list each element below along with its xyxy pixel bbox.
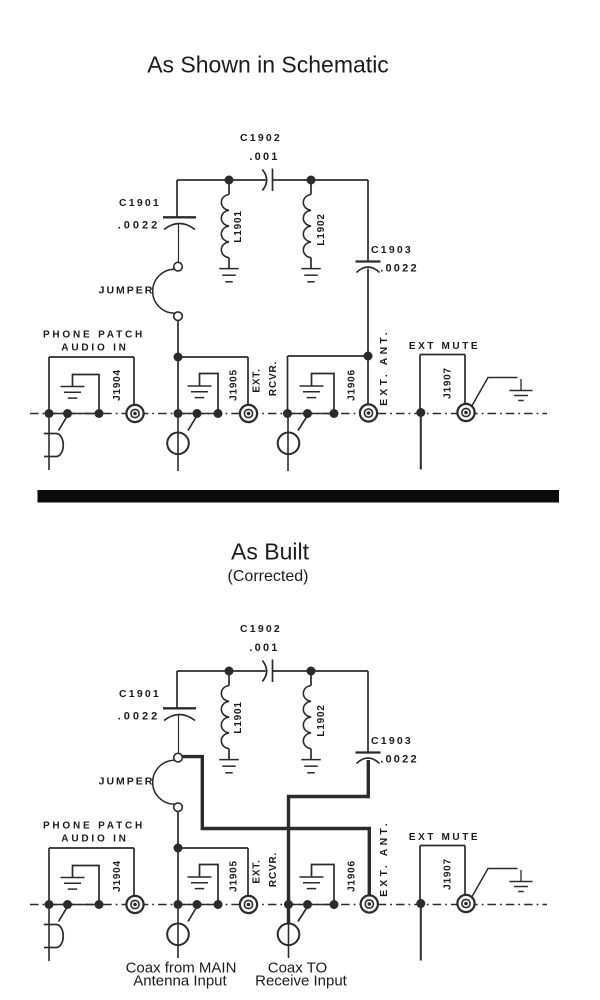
coax connector circle below J1906 (278, 924, 300, 946)
wire C1901 to jumper (178, 716, 180, 754)
wire top rail right segment (273, 670, 369, 672)
label J1904 (112, 860, 123, 892)
jumper terminal lower (174, 803, 183, 812)
label EXT. ANT. (378, 820, 390, 897)
jumper terminal lower (174, 312, 183, 321)
svg-text:EXT MUTE: EXT MUTE (409, 341, 480, 352)
svg-text:EXT.: EXT. (252, 368, 263, 392)
node dot J1906 block ground (330, 409, 339, 418)
dashed signal path line (30, 413, 547, 415)
node dot J1904 block switch (63, 900, 72, 909)
connector J1907 (457, 404, 474, 421)
svg-text:J1906: J1906 (347, 369, 358, 401)
node dot J1905 block switch (193, 409, 202, 418)
bold corrected wire C1903 to receive coax (289, 760, 369, 923)
wire stub below J1904 block (48, 909, 50, 961)
node dot J1906 block ground (330, 900, 339, 909)
wire J1904 box right to jack (133, 848, 135, 896)
inductor L1902 (303, 671, 311, 749)
coax connector circle below J1905 (167, 433, 189, 455)
ground under L1902 (301, 749, 321, 773)
ground under L1902 (301, 258, 321, 282)
label PHONE PATCH (43, 821, 145, 832)
svg-text:L1901: L1901 (233, 701, 244, 733)
value label .001 for C1902 (249, 151, 279, 163)
svg-text:J1904: J1904 (112, 369, 123, 401)
caption Coax TO Receive Input (255, 960, 348, 990)
wire receive coax stub (288, 923, 290, 958)
wire jumper to node (177, 812, 179, 848)
label RCVR. (268, 361, 279, 396)
svg-text:C1902: C1902 (240, 623, 282, 635)
node dot J1905 block left (174, 409, 183, 418)
wire J1907 box right to jack (464, 846, 466, 895)
wire J1906 box left (287, 356, 289, 414)
node junction at J1905 box top (174, 844, 183, 853)
phono plug symbol below J1904 block (44, 434, 63, 457)
switch arm at J1905 block (188, 907, 197, 922)
label EXT. (252, 368, 263, 392)
value label .0022 for C1901 (118, 711, 161, 723)
svg-text:L1902: L1902 (316, 213, 327, 245)
wire right rail down to C1903 (367, 671, 369, 752)
wire J1905 box top (178, 847, 248, 849)
value label .0022 for C1901 (118, 220, 161, 232)
ground in J1904 block (61, 375, 100, 414)
ground under L1901 (219, 258, 239, 282)
svg-text:AUDIO IN: AUDIO IN (61, 834, 128, 845)
wire top rail left segment (177, 179, 266, 181)
wire C1901 to jumper (178, 225, 180, 263)
label EXT MUTE (409, 832, 480, 843)
phono plug symbol below J1904 block (44, 925, 63, 948)
svg-text:C1903: C1903 (371, 735, 413, 747)
svg-text:Antenna Input: Antenna Input (133, 973, 227, 990)
switch arm at J1904 block (59, 907, 68, 922)
svg-text:RCVR.: RCVR. (268, 361, 279, 396)
ground in J1905 block (188, 865, 219, 905)
connector J1905 (240, 405, 257, 422)
svg-text:.0022: .0022 (380, 263, 419, 275)
wire J1904 box right to jack (133, 357, 135, 405)
node dot J1904 block ground (95, 409, 104, 418)
node dot at J1907 block (416, 899, 425, 908)
node dot J1904 block left (45, 900, 54, 909)
wire J1905 box right to jack (247, 357, 249, 405)
svg-text:EXT.: EXT. (252, 859, 263, 883)
svg-text:J1905: J1905 (229, 860, 240, 892)
connector J1904 (126, 896, 143, 913)
wire J1907 box right to jack (464, 355, 466, 404)
jumper wire arc (153, 760, 175, 804)
bold corrected wire jumper to J1906 (182, 757, 369, 895)
wire solid bus in J1905 block (178, 904, 218, 906)
svg-text:PHONE PATCH: PHONE PATCH (43, 330, 145, 341)
node dot J1906 block left (284, 900, 293, 909)
connector J1906 (361, 895, 378, 912)
svg-text:J1907: J1907 (443, 858, 454, 890)
switch arm of J1907 (472, 869, 518, 898)
wire J1904 box top (49, 356, 134, 358)
node junction at J1905 box top (174, 353, 183, 362)
label EXT MUTE (409, 341, 480, 352)
wire solid bus in J1904 block (49, 904, 99, 906)
ground in J1906 block (300, 374, 335, 414)
value label .001 for C1902 (249, 642, 279, 654)
value label .0022 for C1903 (380, 263, 419, 275)
capacitor C1901 (163, 708, 196, 720)
title As Built (231, 539, 310, 565)
node dot J1904 block ground (95, 900, 104, 909)
coax connector circle below J1905 (167, 924, 189, 946)
svg-text:C1901: C1901 (119, 688, 161, 700)
svg-text:Receive Input: Receive Input (255, 973, 348, 990)
svg-text:AUDIO IN: AUDIO IN (61, 343, 128, 354)
node dot J1904 block left (45, 409, 54, 418)
svg-text:L1901: L1901 (233, 210, 244, 242)
ground under L1901 (219, 749, 239, 773)
svg-text:EXT MUTE: EXT MUTE (409, 832, 480, 843)
svg-text:RCVR.: RCVR. (268, 852, 279, 887)
wire J1904 box top (49, 847, 134, 849)
label C1903 (371, 735, 413, 747)
label PHONE PATCH (43, 330, 145, 341)
ground at EXT MUTE switch (510, 870, 533, 892)
label J1905 (229, 860, 240, 892)
svg-text:As Shown in Schematic: As Shown in Schematic (147, 52, 389, 78)
wire stub below J1906 block (287, 418, 289, 471)
label J1907 (443, 367, 454, 399)
wire left rail down to C1901 (176, 671, 178, 708)
capacitor C1902 (262, 660, 272, 683)
wire J1905 box right to jack (247, 848, 249, 896)
svg-text:.001: .001 (249, 151, 279, 163)
svg-text:J1904: J1904 (112, 860, 123, 892)
svg-text:J1907: J1907 (443, 367, 454, 399)
node dot J1905 block left (174, 900, 183, 909)
label C1901 (119, 688, 161, 700)
wire J1907 box left (419, 355, 421, 412)
svg-text:.001: .001 (249, 642, 279, 654)
wire solid bus in J1905 block (178, 413, 218, 415)
wire right rail down to C1903 (367, 180, 369, 261)
capacitor C1903 (356, 753, 381, 764)
label J1905 (229, 369, 240, 401)
wire J1907 box top (420, 354, 465, 356)
wire main antenna stub (177, 909, 179, 958)
wire top rail right segment (273, 179, 369, 181)
wire J1904 box left (48, 357, 50, 414)
jumper terminal upper (174, 753, 183, 762)
svg-text:(Corrected): (Corrected) (228, 568, 309, 585)
label JUMPER (99, 776, 155, 788)
node junction of L1902 and top rail (307, 176, 316, 185)
wire stub below J1907 node (420, 414, 422, 470)
node junction of C1903 branch and J1906 box (364, 352, 373, 361)
inductor L1901 (221, 180, 229, 258)
label AUDIO IN (61, 834, 128, 845)
node dot J1905 block switch (193, 900, 202, 909)
node dot J1906 block switch (303, 900, 312, 909)
ground in J1906 block (300, 865, 335, 905)
svg-text:J1905: J1905 (229, 369, 240, 401)
wire top rail left segment (177, 670, 266, 672)
separator bar (38, 490, 560, 503)
svg-text:PHONE PATCH: PHONE PATCH (43, 821, 145, 832)
wire solid bus in J1904 block (49, 413, 99, 415)
label L1901 (233, 210, 244, 242)
wire J1907 box top (420, 845, 465, 847)
connector J1907 (457, 895, 474, 912)
connector J1904 (126, 405, 143, 422)
svg-text:JUMPER: JUMPER (99, 776, 155, 788)
label L1901 (233, 701, 244, 733)
connector J1906 (360, 404, 377, 421)
label J1904 (112, 369, 123, 401)
svg-text:JUMPER: JUMPER (99, 285, 155, 297)
switch arm at J1905 block (188, 416, 197, 431)
svg-text:C1902: C1902 (240, 132, 282, 144)
label C1902 (240, 132, 282, 144)
switch arm at J1904 block (59, 416, 68, 431)
coax connector circle below J1906 (278, 433, 300, 455)
node junction of L1901 and top rail (225, 667, 234, 676)
label EXT. (252, 859, 263, 883)
node dot J1905 block ground (214, 900, 223, 909)
switch arm at J1906 block (298, 907, 308, 922)
node junction of L1902 and top rail (307, 667, 316, 676)
node dot at J1907 block (416, 408, 425, 417)
wire left rail down to C1901 (176, 180, 178, 217)
wire J1905 node to line (177, 357, 179, 414)
node dot J1906 block left (283, 409, 292, 418)
svg-text:C1901: C1901 (119, 197, 161, 209)
svg-text:.0022: .0022 (118, 220, 161, 232)
label JUMPER (99, 285, 155, 297)
label RCVR. (268, 852, 279, 887)
svg-text:EXT. ANT.: EXT. ANT. (378, 329, 390, 406)
subtitle Corrected (228, 568, 309, 585)
wire J1904 box left (48, 848, 50, 905)
switch arm of J1907 (472, 378, 518, 407)
wire J1905 node to line (177, 848, 179, 905)
title As Shown in Schematic (147, 52, 389, 78)
label AUDIO IN (61, 343, 128, 354)
connector J1905 (240, 896, 257, 913)
svg-text:EXT. ANT.: EXT. ANT. (378, 820, 390, 897)
inductor L1901 (221, 671, 229, 749)
wire C1903 to J1906 (367, 269, 369, 405)
svg-text:J1906: J1906 (347, 860, 358, 892)
node junction of L1901 and top rail (225, 176, 234, 185)
wire stub below J1907 node (420, 905, 422, 961)
caption Coax from MAIN Antenna Input (126, 960, 237, 990)
label L1902 (316, 704, 327, 736)
svg-text:.0022: .0022 (118, 711, 161, 723)
label J1906 (347, 369, 358, 401)
inductor L1902 (303, 180, 311, 258)
value label .0022 for C1903 (380, 754, 419, 766)
label EXT. ANT. (378, 329, 390, 406)
label J1907 (443, 858, 454, 890)
label J1906 (347, 860, 358, 892)
ground at EXT MUTE switch (510, 379, 533, 401)
label C1903 (371, 244, 413, 256)
svg-text:C1903: C1903 (371, 244, 413, 256)
dashed signal path line (30, 904, 547, 906)
jumper terminal upper (174, 262, 183, 271)
wire J1906 box top (288, 355, 369, 357)
wire J1905 box top (178, 356, 248, 358)
wire solid bus in J1906 block (288, 413, 335, 415)
label C1902 (240, 623, 282, 635)
capacitor C1902 (262, 169, 272, 192)
svg-text:L1902: L1902 (316, 704, 327, 736)
label C1901 (119, 197, 161, 209)
node dot J1906 block switch (303, 409, 312, 418)
wire J1907 box left (419, 846, 421, 903)
label L1902 (316, 213, 327, 245)
node dot J1905 block ground (214, 409, 223, 418)
capacitor C1901 (163, 217, 196, 229)
svg-text:.0022: .0022 (380, 754, 419, 766)
wire main antenna stub (177, 418, 179, 471)
ground in J1905 block (188, 374, 219, 414)
wire solid bus in J1906 block (288, 904, 335, 906)
wire stub below J1904 block (48, 418, 50, 470)
node dot J1904 block switch (63, 409, 72, 418)
svg-text:As Built: As Built (231, 539, 310, 565)
switch arm at J1906 block (298, 416, 308, 431)
wire jumper to node (177, 321, 179, 357)
capacitor C1903 (356, 262, 381, 273)
ground in J1904 block (61, 866, 100, 905)
jumper wire arc (153, 269, 175, 313)
